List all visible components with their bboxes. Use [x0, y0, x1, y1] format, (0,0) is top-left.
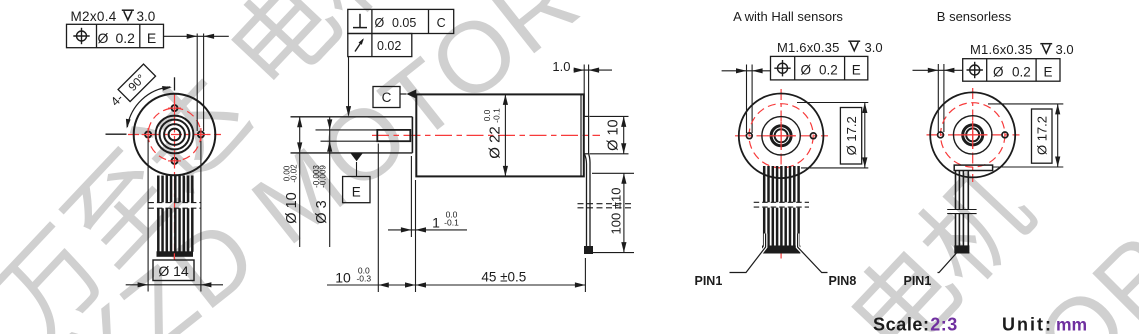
view B cable end tip [955, 246, 969, 253]
front view outer circle Ø22 body [134, 94, 216, 176]
side view 10 arrow left [378, 282, 389, 287]
svg-text:mm: mm [1056, 315, 1087, 334]
front view FCF position symbol [73, 28, 89, 44]
side view 1.0 dim line [574, 69, 613, 71]
svg-text:Ø 14: Ø 14 [158, 263, 189, 279]
svg-text:-0.1: -0.1 [492, 108, 502, 123]
svg-text:C: C [437, 16, 446, 30]
front view cable end bar [157, 252, 193, 256]
view A shaft ring [775, 129, 788, 142]
front view Ø14 label box [153, 260, 194, 281]
view B leader arrow right [944, 68, 955, 73]
view B cable break top [947, 209, 976, 211]
front view ring 4 [169, 129, 181, 141]
front view M2 leader line [164, 35, 229, 37]
view A hole left [746, 133, 752, 139]
svg-text:E: E [352, 185, 361, 200]
side view right Ø10 arrow down [621, 143, 626, 154]
view B Ø17.2 arrow down [1055, 157, 1060, 168]
side view right Ø10 arrow up [621, 116, 626, 127]
side view FCF row1 divider 1 [371, 9, 373, 33]
front view M2 hole right red tick [194, 128, 207, 141]
side view 1.0 ext right [588, 65, 590, 117]
front view Ø14 ext line right [200, 141, 202, 292]
svg-text:Ø 17.2: Ø 17.2 [1035, 116, 1050, 155]
svg-text:PIN1: PIN1 [695, 274, 723, 288]
side view Ø3 arrow bottom [327, 141, 332, 152]
side view 1 ext left [410, 156, 412, 237]
view A cable break top [754, 201, 809, 203]
svg-text:0.05: 0.05 [392, 16, 416, 30]
side view 1 arrow right [416, 227, 427, 232]
svg-text:PIN8: PIN8 [829, 274, 857, 288]
side view front boss face line [411, 117, 413, 153]
svg-text:3.0: 3.0 [1056, 42, 1074, 57]
front view M2 hole bottom red tick [168, 154, 181, 167]
side view 100 arrow up [621, 173, 626, 184]
side view Ø3 ext top [316, 129, 378, 131]
side view rear lip rect [584, 116, 589, 153]
side view datum C box [373, 87, 400, 108]
side view 100 ext bottom [592, 252, 634, 254]
side view front boss bottom line [291, 152, 413, 154]
side view FCF row2 box [348, 34, 412, 57]
view B cable wires [956, 171, 969, 247]
svg-text:B sensorless: B sensorless [937, 9, 1012, 24]
side view 1.0 arrow left [574, 68, 585, 73]
view B inner circle [954, 116, 992, 154]
front view ribbon cable stripes [158, 176, 192, 252]
front view cable break line top [148, 202, 200, 204]
svg-text:Ø 17.2: Ø 17.2 [844, 116, 859, 155]
side view Ø22 arrow up [503, 94, 508, 105]
front view Ø14 dim line [126, 284, 223, 286]
view A FCF divider 1 [794, 56, 796, 80]
watermark chinese stamp 1 [0, 0, 422, 334]
svg-text:Unit:: Unit: [1002, 315, 1053, 334]
front view ring 3 [164, 124, 185, 145]
front view ring 2 [160, 120, 190, 150]
view B connector rect [954, 165, 992, 170]
side view datum E leader [356, 162, 358, 177]
view A bearing ring [771, 126, 791, 146]
front view angular dim box [118, 64, 155, 101]
view A FCF divider 2 [844, 56, 846, 80]
side view cable right line [589, 154, 590, 250]
front view M2 hole tangent line right [203, 34, 205, 132]
side view 100 ext top [592, 172, 634, 174]
view A Ø17.2 label box [840, 108, 861, 165]
svg-text:0.2: 0.2 [116, 30, 136, 46]
side view Ø10 arrow up [297, 117, 302, 128]
side view runout symbol [355, 37, 365, 51]
svg-text:Scale:: Scale: [873, 315, 930, 334]
svg-text:M1.6x0.35: M1.6x0.35 [777, 40, 840, 55]
svg-text:A with Hall sensors: A with Hall sensors [733, 9, 843, 24]
front view angular arc arrow top [162, 85, 172, 91]
front view M2 hole top [172, 105, 178, 111]
side view datum C leader [400, 93, 407, 95]
svg-text:1: 1 [432, 214, 440, 230]
view B cable break bottom [947, 213, 976, 215]
side view bottom ext rear face [584, 258, 586, 292]
view A PIN8 leader [798, 234, 828, 273]
svg-text:E: E [852, 62, 861, 77]
front view Ø14 arrow left [138, 282, 149, 287]
view B hole tangent right [943, 64, 945, 132]
view A leader line [722, 70, 771, 72]
svg-text:Ø: Ø [98, 30, 109, 46]
side view datum C triangle [406, 89, 416, 98]
svg-text:10: 10 [335, 269, 351, 285]
watermark chinese stamp 2 [600, 156, 1042, 334]
view B Ø17.2 label box [1032, 109, 1053, 163]
front view red vertical centerline [174, 93, 176, 260]
view B leader arrow left [928, 68, 939, 73]
view A ribbon cable stripes [764, 166, 798, 246]
view A outer circle [739, 94, 824, 179]
front view angular tick top [174, 77, 176, 90]
side view bottom ext shaft tip [377, 144, 379, 293]
side view front boss top line [291, 116, 413, 118]
view A Ø17.2 arrow down [862, 157, 867, 168]
view B hole right [1002, 132, 1008, 138]
view A red bolt circle [749, 104, 813, 168]
view B shaft ring [966, 128, 979, 141]
front view M2 hole bottom [172, 158, 178, 164]
front view Ø14 arrow right [201, 282, 212, 287]
svg-text:Ø: Ø [375, 16, 385, 30]
svg-text:Ø: Ø [993, 64, 1004, 79]
svg-text:M1.6x0.35: M1.6x0.35 [970, 42, 1033, 57]
front view angular arc arrow bottom [124, 119, 130, 129]
view B bearing ring [963, 125, 983, 145]
view B FCF position symbol [967, 62, 983, 78]
view B FCF divider 1 [986, 59, 988, 81]
view A Ø17.2 arrow up [862, 103, 867, 114]
view B Ø17.2 dim line [1057, 104, 1059, 167]
front view M2 hole left [145, 132, 151, 138]
view A hole tangent left [746, 65, 748, 134]
view A hole tangent right [751, 65, 753, 134]
view B PIN1 leader [938, 253, 957, 273]
view A Ø17.2 ext bottom [801, 167, 868, 169]
side view 100 arrow down [621, 242, 626, 253]
svg-text:1.0: 1.0 [552, 59, 570, 74]
side view 1.0 arrow right [589, 68, 600, 73]
front view position FCF box [67, 24, 164, 47]
side view FCF row2 divider [371, 34, 373, 57]
view A Ø17.2 ext top [797, 102, 868, 104]
view A red horizontal centerline [735, 135, 828, 137]
front view cable break line bottom [148, 207, 200, 209]
svg-text:45 ±0.5: 45 ±0.5 [481, 269, 526, 284]
view B hole tangent left [937, 64, 939, 132]
svg-text:-0.3: -0.3 [356, 274, 371, 284]
front view ring 1 [156, 116, 194, 154]
side view FCF leader arrow [346, 106, 351, 117]
svg-text:0.2: 0.2 [1012, 64, 1031, 79]
svg-text:0.02: 0.02 [377, 39, 401, 53]
svg-text:E: E [1043, 64, 1052, 79]
front view Ø14 ext line left [147, 140, 149, 292]
view A leader arrow left [736, 68, 747, 73]
side view datum E triangle [351, 153, 363, 161]
svg-text:0.0: 0.0 [482, 109, 492, 121]
svg-text:M2x0.4: M2x0.4 [71, 9, 117, 24]
front view angular tick left [106, 133, 127, 135]
front view M2 hole top red tick [168, 102, 181, 115]
side view Ø10 arrow down [297, 142, 302, 153]
view B hole left [938, 132, 944, 138]
side view right Ø10 dim line [623, 116, 625, 153]
view A cable break bottom [754, 206, 809, 208]
side view cable break bottom [578, 207, 635, 209]
side view right Ø10 ext top [590, 115, 629, 117]
view B FCF divider 2 [1035, 59, 1037, 81]
svg-text:PIN1: PIN1 [904, 274, 932, 288]
side view Ø22 arrow down [503, 166, 508, 177]
front view red bolt circle Ø14 [148, 108, 201, 161]
view B red center cross [959, 121, 987, 149]
side view cable break top [578, 203, 635, 205]
side view FCF leader line [348, 57, 350, 116]
side view 1 dim line [388, 229, 467, 231]
side view FCF row1 box [348, 9, 454, 33]
front view red horizontal centerline [128, 134, 221, 136]
side view 45 arrow left [416, 282, 427, 287]
front view M2 hole left red tick [142, 128, 155, 141]
view A red vertical centerline [780, 89, 782, 183]
side view FCF row1 divider 2 [428, 9, 430, 33]
view A inner circle [762, 117, 800, 155]
side view red centerline [372, 134, 600, 136]
view B outer circle [930, 92, 1015, 177]
view A cable end bar [763, 246, 800, 253]
svg-text:0.2: 0.2 [819, 62, 838, 77]
view A leader arrow right [752, 68, 763, 73]
view A red center cross [767, 122, 795, 150]
view B Ø17.2 arrow up [1055, 104, 1060, 115]
side view right Ø10 ext bottom [590, 153, 629, 155]
front view M2 leader arrow right [204, 34, 215, 39]
front view cable red tick [173, 253, 175, 259]
view B leader line [913, 69, 963, 71]
side view 45 arrow right [575, 282, 586, 287]
side view Ø3 ext bottom [321, 140, 378, 142]
side view 1.0 ext left [583, 65, 585, 117]
view A Ø17.2 dim line [864, 103, 866, 168]
svg-text:E: E [147, 30, 156, 46]
view A PIN1 leader [730, 234, 766, 273]
svg-text:3.0: 3.0 [137, 9, 156, 24]
view A FCF position symbol [774, 60, 790, 76]
view B Ø17.2 ext top [988, 103, 1063, 105]
view B red vertical centerline [972, 88, 974, 182]
view B red bolt circle [941, 103, 1005, 167]
svg-text:Ø 10: Ø 10 [284, 192, 300, 223]
front view FCF divider 2 [139, 24, 141, 47]
side view cable left line [585, 154, 587, 250]
view A FCF box [771, 56, 868, 80]
view B Ø17.2 ext bottom [993, 166, 1064, 168]
side view bottom dim line [327, 284, 585, 286]
side view motor body rect [416, 94, 584, 176]
side view perpendicularity symbol [353, 14, 367, 28]
side view 100 dim line [623, 173, 625, 252]
side view Ø22 dim line [504, 94, 506, 176]
view B red horizontal centerline [927, 134, 1020, 136]
svg-text:C: C [382, 90, 392, 105]
side view 1 arrow left [401, 227, 412, 232]
view B FCF box [963, 59, 1060, 81]
svg-text:-0.02: -0.02 [290, 164, 299, 183]
side view 10 arrow right [405, 282, 416, 287]
svg-text:Ø 10: Ø 10 [606, 119, 622, 150]
front view angular dim arc [127, 87, 170, 127]
svg-text:Ø 22: Ø 22 [487, 126, 504, 159]
side view datum E box [343, 177, 370, 203]
side view 1 ext right [415, 180, 417, 292]
view A red cable tick [780, 254, 782, 259]
view A hole right [810, 133, 816, 139]
front view FCF divider 1 [96, 24, 98, 47]
svg-text:Ø 3: Ø 3 [314, 200, 330, 223]
svg-text:2:3: 2:3 [930, 315, 958, 334]
svg-text:-0.1: -0.1 [444, 218, 459, 228]
front view M2 hole tangent line left [196, 34, 198, 132]
svg-text:-0.009: -0.009 [319, 165, 328, 188]
side view Ø10 dim line [299, 117, 301, 247]
svg-text:100 ±10: 100 ±10 [609, 188, 624, 235]
front view M2 hole right [198, 132, 204, 138]
front view M2 leader arrow left [187, 34, 198, 39]
svg-text:Ø: Ø [801, 62, 812, 77]
side view rear cover seam line [580, 94, 582, 176]
side view cable end tip [585, 247, 593, 254]
side view Ø3 dim line [329, 118, 331, 248]
side view shaft rect [377, 130, 410, 141]
side view Ø3 arrow top [327, 119, 332, 130]
svg-text:3.0: 3.0 [865, 40, 883, 55]
